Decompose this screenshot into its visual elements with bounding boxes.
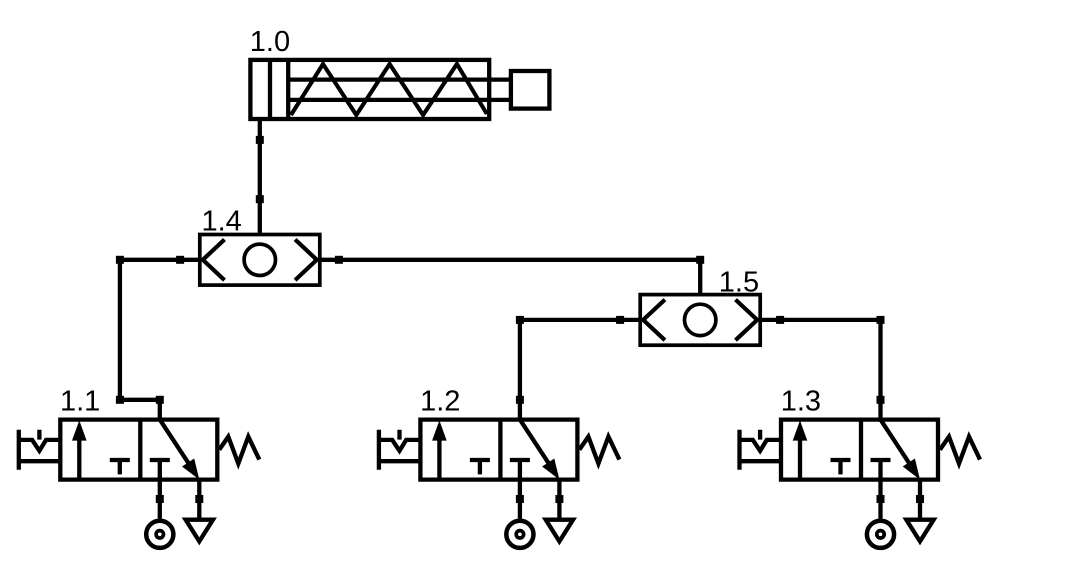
valve 1.2 return spring (579, 437, 619, 464)
valve 1.2 port 3 wire (557, 480, 561, 518)
cylinder 1.0 rod end block (511, 71, 550, 109)
valve 1.1 return spring (219, 437, 259, 464)
node corner B (116, 396, 124, 404)
valve 1.1 exhaust flow path 2-3 (right box) (160, 420, 195, 473)
node shuttle 1.5 right port (776, 316, 784, 324)
valve 1.1 port 3 wire (197, 480, 201, 518)
shuttle valve 1.5 (OR) (621, 260, 780, 345)
valve 1.1 port 1 wire (158, 460, 162, 519)
valve 1.2 flow arrow (left box, 1-2) (437, 440, 441, 480)
valve 1.2 blocked port (left box) (470, 460, 490, 474)
valve 1.1 (3/2-way valve, pushbutton + spring return) (19, 420, 259, 548)
shuttle valve 1.5 right seat (736, 300, 758, 341)
node valve 1.1 port 2 (156, 396, 164, 404)
valve 1.2 exhaust flow path 2-3 (right box) (520, 420, 555, 473)
valve 1.1 body boxes (60, 420, 217, 480)
valve 1.3 port 1 wire (878, 460, 882, 519)
wire cylinder 1.0 to shuttle 1.4 (258, 140, 262, 199)
shuttle valve 1.5 body (640, 295, 760, 346)
exhaust 1.2 (546, 520, 573, 542)
exhaust 1.1 (186, 520, 213, 542)
valve 1.1 blocked port 1 (right box) (150, 458, 170, 462)
svg-text:1.1: 1.1 (60, 385, 100, 417)
shuttle valve 1.4 (OR) (180, 200, 339, 285)
svg-text:1.0: 1.0 (250, 26, 290, 58)
valve 1.3 (3/2-way valve, pushbutton + spring return) (740, 420, 981, 548)
valve 1.3 return spring (940, 437, 980, 464)
valve 1.3 port 1 node (877, 495, 885, 503)
node corner A (116, 256, 124, 264)
cylinder 1.0 piston rod (288, 80, 511, 100)
valve 1.2 port 1 wire (518, 460, 522, 519)
pressure source 1.2 (506, 521, 533, 548)
valve 1.1 manual actuator (19, 430, 61, 470)
valve 1.3 exhaust flow path 2-3 (right box) (881, 420, 916, 473)
shuttle valve 1.4 port stubs (180, 200, 339, 260)
node shuttle 1.5 left port (616, 316, 624, 324)
wire shuttle 1.4 right to shuttle 1.5 top (339, 258, 700, 262)
svg-text:1.4: 1.4 (202, 206, 242, 238)
svg-text:1.2: 1.2 (420, 385, 460, 417)
pressure source 1.1 (146, 521, 173, 548)
shuttle valve 1.4 body (200, 234, 320, 285)
cylinder 1.0 return spring (291, 64, 487, 115)
cylinder 1.0 port stub (258, 119, 262, 140)
wire shuttle 1.5 left to valve 1.2 (520, 320, 620, 420)
valve 1.2 blocked port 1 (right box) (510, 458, 530, 462)
node shuttle 1.4 right port (335, 256, 343, 264)
valve 1.3 port 3 node (916, 495, 924, 503)
valve 1.3 blocked port 1 (right box) (871, 458, 891, 462)
cylinder 1.0 barrel (250, 60, 489, 119)
svg-text:1.5: 1.5 (719, 267, 759, 299)
cylinder 1.0 (single-acting, spring return) (250, 60, 549, 140)
pressure source 1.3 (867, 521, 894, 548)
wire shuttle 1.4 left to valve 1.1 (120, 260, 180, 420)
valve 1.3 body boxes (781, 420, 938, 480)
valve 1.3 flow arrow (left box, 1-2) (798, 440, 802, 480)
valve 1.1 port 1 node (156, 495, 164, 503)
valve 1.1 port 3 node (195, 495, 203, 503)
valve 1.1 blocked port (left box) (110, 460, 130, 474)
valve 1.2 manual actuator (379, 430, 421, 470)
valve 1.2 port 3 node (555, 495, 563, 503)
valve 1.2 port 1 node (516, 495, 524, 503)
exhaust 1.3 (906, 520, 933, 542)
node cylinder 1.0 port (256, 136, 264, 144)
wire shuttle 1.5 right to valve 1.3 (780, 320, 880, 420)
valve 1.1 flow arrow (left box, 1-2) (77, 440, 81, 480)
shuttle valve 1.5 left seat (643, 300, 665, 341)
node corner D (877, 316, 885, 324)
valve 1.3 blocked port (left box) (831, 460, 851, 474)
shuttle valve 1.4 right seat (295, 239, 317, 280)
shuttle valve 1.5 ball (685, 304, 716, 335)
node shuttle 1.4 left port (176, 256, 184, 264)
valve 1.3 manual actuator (740, 430, 782, 470)
shuttle valve 1.4 ball (244, 244, 275, 275)
shuttle valve 1.5 port stubs (621, 260, 780, 320)
node valve 1.2 port 2 (516, 396, 524, 404)
cylinder 1.0 piston (270, 60, 288, 119)
valve 1.3 port 3 wire (918, 480, 922, 518)
shuttle valve 1.4 left seat (203, 239, 225, 280)
svg-text:1.3: 1.3 (781, 385, 821, 417)
node shuttle 1.5 top port (696, 256, 704, 264)
node valve 1.3 port 2 (877, 396, 885, 404)
valve 1.2 (3/2-way valve, pushbutton + spring return) (379, 420, 620, 548)
node shuttle 1.4 top port (256, 195, 264, 203)
node corner C (516, 316, 524, 324)
valve 1.2 body boxes (420, 420, 577, 480)
